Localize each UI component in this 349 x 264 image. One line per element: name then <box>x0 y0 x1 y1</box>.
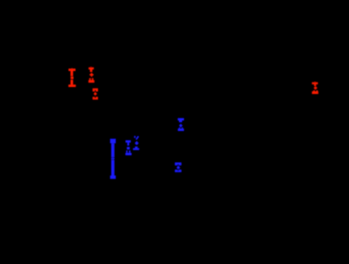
LED D5 <box>133 136 139 150</box>
wire <box>90 40 92 67</box>
wire <box>71 40 73 69</box>
capacitor C1 <box>68 69 75 87</box>
diode D4 <box>125 140 131 155</box>
diode D3 <box>312 82 318 94</box>
diode D6 <box>178 118 184 131</box>
diode D1 <box>88 67 94 82</box>
resistor R1 <box>110 139 116 179</box>
diode D2 <box>93 88 98 99</box>
capacitor C2 <box>175 162 182 172</box>
wire <box>314 60 316 82</box>
